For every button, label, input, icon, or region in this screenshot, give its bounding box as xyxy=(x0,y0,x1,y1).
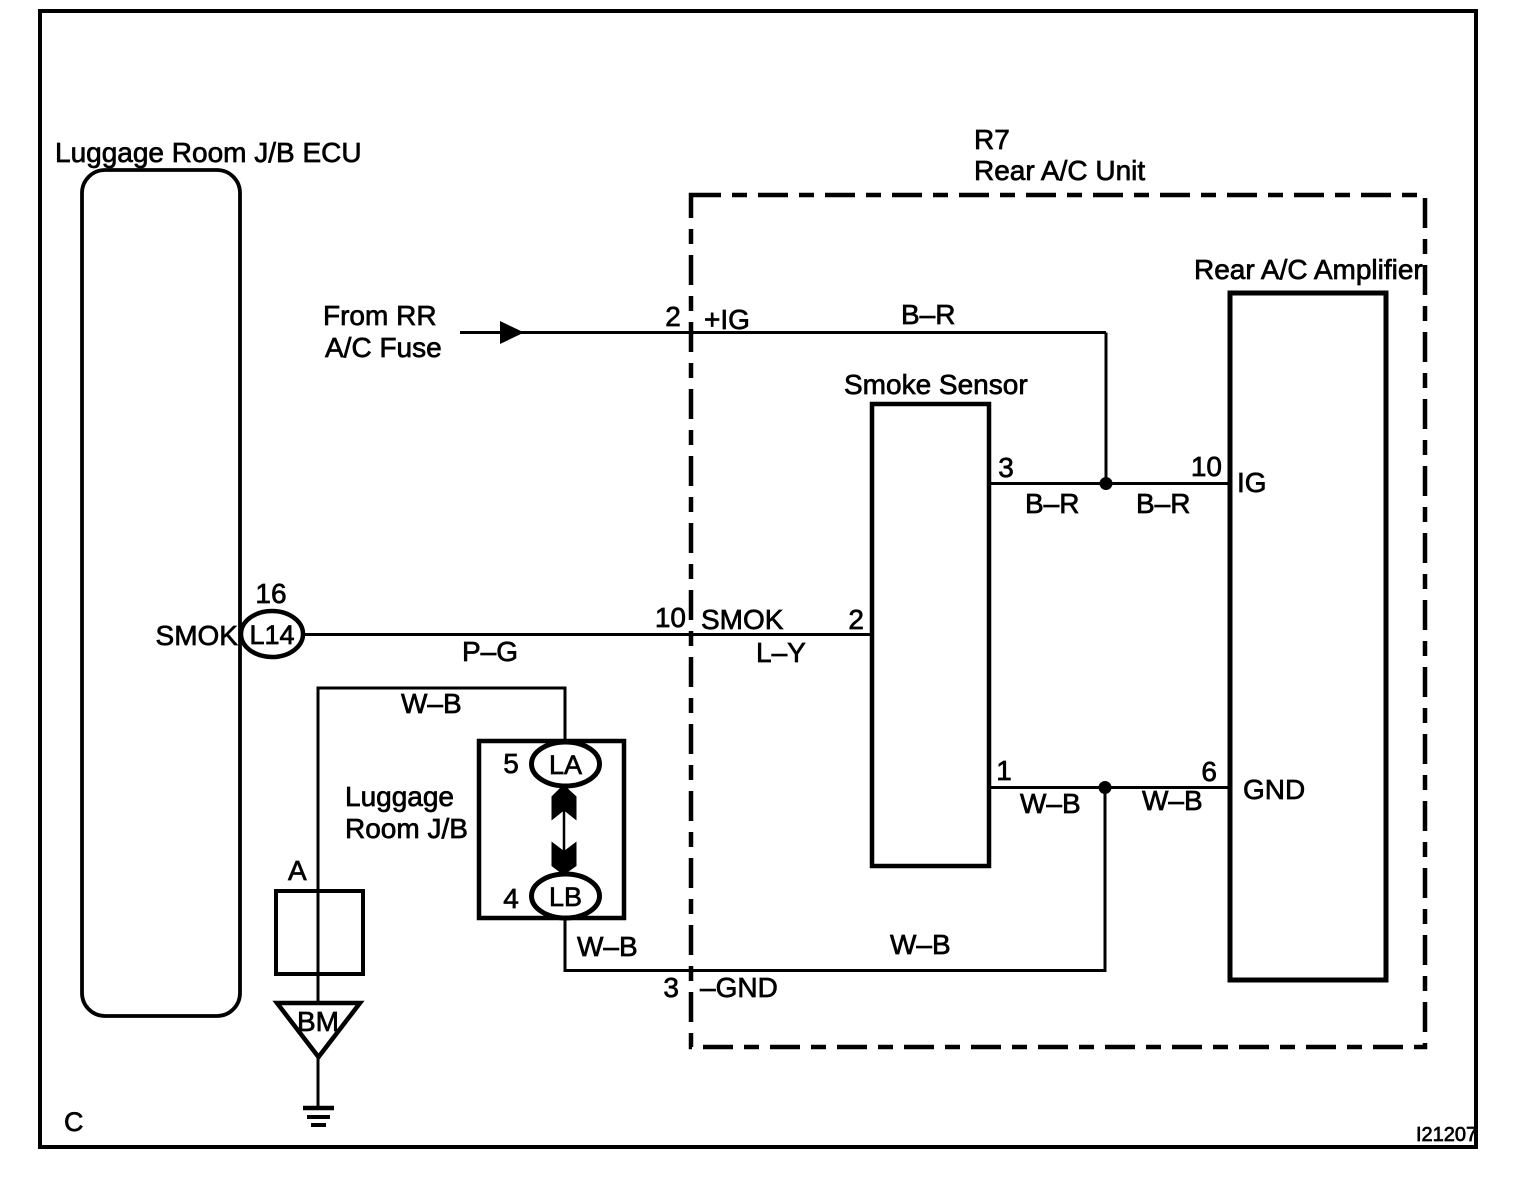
arrow feed direction xyxy=(500,321,524,344)
wire to ground xyxy=(317,1057,320,1107)
svg-text:16: 16 xyxy=(255,578,286,609)
ground xyxy=(303,1108,334,1125)
enclosure R7 Rear A/C Unit xyxy=(691,124,1425,1047)
svg-text:C: C xyxy=(64,1107,84,1137)
svg-text:6: 6 xyxy=(1201,756,1217,787)
block Smoke Sensor xyxy=(844,369,1028,866)
svg-text:LB: LB xyxy=(549,882,582,912)
svg-text:B–R: B–R xyxy=(901,299,955,330)
svg-text:–GND: –GND xyxy=(700,972,778,1003)
svg-text:SMOK: SMOK xyxy=(156,620,239,651)
connector A xyxy=(276,855,363,974)
svg-text:10: 10 xyxy=(1191,451,1222,482)
svg-text:L14: L14 xyxy=(249,620,294,650)
svg-text:3: 3 xyxy=(663,972,679,1003)
wire B-R vertical drop to IG node xyxy=(1105,333,1108,484)
svg-text:2: 2 xyxy=(848,604,864,635)
svg-text:Luggage: Luggage xyxy=(345,781,454,812)
svg-text:B–R: B–R xyxy=(1025,488,1079,519)
svg-text:A/C Fuse: A/C Fuse xyxy=(325,332,442,363)
connector block Luggage Room J/B ECU xyxy=(55,137,362,1016)
svg-text:P–G: P–G xyxy=(462,636,518,667)
svg-text:W–B: W–B xyxy=(1142,785,1203,816)
svg-text:Smoke Sensor: Smoke Sensor xyxy=(844,369,1028,400)
pin 10 IG amplifier xyxy=(1191,451,1267,498)
svg-text:R7: R7 xyxy=(974,124,1010,155)
svg-text:IG: IG xyxy=(1237,467,1267,498)
svg-text:3: 3 xyxy=(998,452,1014,483)
svg-text:W–B: W–B xyxy=(577,931,638,962)
svg-text:Room J/B: Room J/B xyxy=(345,813,468,844)
wire P-G / L-Y from L14 to smoke sensor pin 2 SMOK xyxy=(303,633,872,636)
wire B-R smoke sensor pin 3 to amplifier pin 10 xyxy=(989,482,1230,485)
pin 6 GND amplifier xyxy=(1201,756,1305,805)
svg-text:GND: GND xyxy=(1243,774,1305,805)
svg-text:Rear A/C Unit: Rear A/C Unit xyxy=(974,155,1145,186)
svg-text:W–B: W–B xyxy=(401,688,462,719)
svg-text:+IG: +IG xyxy=(704,304,750,335)
ground point BM xyxy=(277,1003,360,1057)
junction IG node xyxy=(1100,477,1113,490)
svg-text:5: 5 xyxy=(503,748,519,779)
source label From RR A/C Fuse xyxy=(323,300,442,363)
ECU terminal SMOK L14 pin 16 xyxy=(156,578,303,657)
pin 10 SMOK of R7 xyxy=(655,602,784,635)
terminal LB pin 4 xyxy=(503,874,599,918)
svg-text:I21207: I21207 xyxy=(1416,1124,1477,1146)
wire W-B from LB to R7 pin 3 -GND and GND node xyxy=(565,788,1105,971)
arrow down to LB xyxy=(552,842,577,876)
svg-text:B–R: B–R xyxy=(1136,488,1190,519)
wire W-B smoke sensor pin 1 to amplifier pin 6 GND xyxy=(989,786,1230,789)
arrow up to LA xyxy=(552,785,577,821)
svg-text:W–B: W–B xyxy=(1020,788,1081,819)
wire W-B from junction block terminal LA to body ground xyxy=(318,688,565,1003)
wire B-R from RR A/C fuse to R7 pin 2 +IG xyxy=(460,331,1106,334)
svg-text:4: 4 xyxy=(503,883,519,914)
terminal LA pin 5 xyxy=(503,742,599,786)
svg-text:SMOK: SMOK xyxy=(701,604,784,635)
internal link line xyxy=(563,808,566,852)
block Rear A/C Amplifier xyxy=(1194,254,1423,980)
svg-text:W–B: W–B xyxy=(890,929,951,960)
svg-text:L–Y: L–Y xyxy=(756,637,806,668)
svg-text:2: 2 xyxy=(665,301,681,332)
svg-text:A: A xyxy=(288,855,307,886)
svg-text:From RR: From RR xyxy=(323,300,437,331)
svg-text:LA: LA xyxy=(549,750,582,780)
pin 3 -GND of R7 xyxy=(663,972,777,1003)
svg-text:BM: BM xyxy=(297,1006,339,1037)
junction GND node xyxy=(1099,781,1112,794)
pin 2 +IG xyxy=(665,301,750,335)
svg-text:10: 10 xyxy=(655,602,686,633)
junction block Luggage Room J/B xyxy=(345,741,624,918)
svg-text:Rear A/C Amplifier: Rear A/C Amplifier xyxy=(1194,254,1423,285)
svg-text:1: 1 xyxy=(996,755,1012,786)
svg-text:Luggage Room J/B ECU: Luggage Room J/B ECU xyxy=(55,137,362,168)
